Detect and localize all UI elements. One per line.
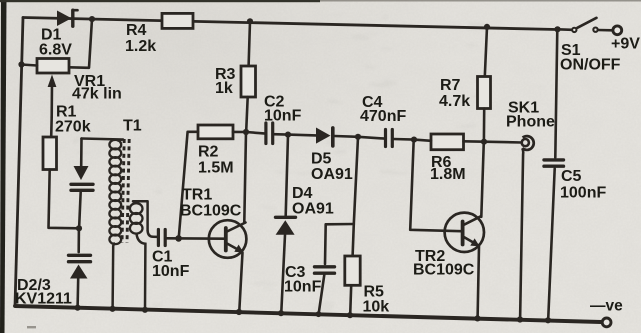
capacitor C3 xyxy=(315,265,335,268)
svg-text:Phone: Phone xyxy=(506,114,555,131)
svg-text:47k lin: 47k lin xyxy=(72,86,122,103)
wire VR1 riser xyxy=(69,19,92,68)
varicap D3 xyxy=(77,229,80,252)
wire C2 right lead xyxy=(273,133,288,136)
wire R6 left lead xyxy=(414,140,431,141)
node T1 secondary ground xyxy=(142,307,148,313)
wire top rail xyxy=(23,18,557,30)
node VR1 left xyxy=(18,61,24,67)
transistor TR1 xyxy=(209,220,247,258)
resistor R3 xyxy=(241,66,256,97)
wiper arrow VR1 xyxy=(50,83,53,117)
svg-text:OA91: OA91 xyxy=(292,201,334,218)
wire T1 primary bottom lead xyxy=(113,244,114,309)
wire TR1 emitter fall xyxy=(239,253,242,312)
wire VR1 wiper to R1 xyxy=(50,117,53,137)
switch S1 contact b xyxy=(593,28,597,32)
wire TR2 emitter fall xyxy=(478,247,479,318)
wire D5 right lead xyxy=(335,135,358,138)
svg-text:TR1: TR1 xyxy=(182,187,212,204)
svg-text:ON/OFF: ON/OFF xyxy=(560,57,621,74)
switch S1 contact a xyxy=(572,28,576,32)
wire C5 fall xyxy=(548,169,555,320)
node top rail R7 xyxy=(484,24,490,30)
svg-text:1.8M: 1.8M xyxy=(430,166,466,183)
resistor R1 xyxy=(43,137,57,170)
wire T1 secondary top hook xyxy=(133,201,148,230)
svg-text:R7: R7 xyxy=(440,77,461,94)
node top rail S1 xyxy=(554,26,560,32)
svg-text:D4: D4 xyxy=(292,185,313,202)
svg-text:4.7k: 4.7k xyxy=(439,93,470,110)
potentiometer VR1 xyxy=(37,59,69,74)
wire R5 drop xyxy=(353,137,358,256)
capacitor C3 top lead xyxy=(324,224,327,264)
svg-text:OA91: OA91 xyxy=(311,166,353,183)
node R7 jack junction xyxy=(481,139,487,145)
diode D5 xyxy=(316,128,331,144)
svg-text:10nF: 10nF xyxy=(264,108,302,125)
node C4 junction xyxy=(355,134,361,140)
capacitor C1 xyxy=(157,230,160,246)
scan edge bar left xyxy=(0,0,7,333)
svg-text:R2: R2 xyxy=(198,144,219,161)
wire R6 right lead xyxy=(464,140,485,143)
wire R3 top lead xyxy=(249,21,250,66)
wire left rail xyxy=(15,18,23,307)
wire R2 right lead xyxy=(233,131,246,134)
wire varicap top xyxy=(80,139,83,167)
capacitor C2 xyxy=(264,123,267,144)
svg-text:100nF: 100nF xyxy=(560,185,606,202)
wire S1 stub xyxy=(558,28,572,31)
wire TR2 base drop xyxy=(410,140,461,231)
wire D4 drop xyxy=(286,135,288,216)
wire TR1 collector riser xyxy=(244,132,246,222)
transistor TR2 xyxy=(445,213,484,252)
resistor R7 xyxy=(478,77,491,109)
node jack ground xyxy=(517,316,523,322)
svg-text:+9V: +9V xyxy=(611,36,640,53)
svg-text:6.8V: 6.8V xyxy=(39,42,72,59)
wire bottom rail xyxy=(15,306,601,322)
svg-text:T1: T1 xyxy=(123,118,142,135)
svg-text:D5: D5 xyxy=(311,151,332,168)
svg-text:BC109C: BC109C xyxy=(180,203,242,220)
transformer T1 core xyxy=(122,139,124,243)
scan edge line top xyxy=(0,0,641,2)
node D1 cathode xyxy=(89,16,95,22)
svg-text:270k: 270k xyxy=(55,119,91,136)
transformer T1 secondary winding xyxy=(130,203,143,214)
node collector junction TR1 xyxy=(243,129,249,135)
svg-text:1.2k: 1.2k xyxy=(125,38,156,55)
wire R7 top lead xyxy=(485,27,487,77)
resistor R2 xyxy=(198,125,233,139)
wire R7 bottom lead xyxy=(483,109,486,142)
node TR1 emitter ground xyxy=(236,309,242,315)
svg-text:C5: C5 xyxy=(561,168,582,185)
wire C3 stub xyxy=(326,223,354,226)
wire C2 left lead xyxy=(246,132,266,134)
diode D4 xyxy=(276,216,296,219)
transformer T1 primary winding xyxy=(109,140,121,149)
wire TR1 base lead xyxy=(167,237,224,240)
socket SK1 xyxy=(522,139,529,146)
node D4 ground xyxy=(278,310,284,316)
node C5 ground xyxy=(545,317,551,323)
svg-text:470nF: 470nF xyxy=(360,108,406,125)
wire T1 secondary bottom lead xyxy=(137,234,146,310)
resistor R5 xyxy=(345,256,360,285)
svg-text:R4: R4 xyxy=(126,22,147,39)
wire R1 bottom lead xyxy=(49,170,80,229)
smudge marks xyxy=(27,326,36,328)
node R5 ground xyxy=(347,312,353,318)
node R2 base junction xyxy=(175,235,182,242)
svg-text:10k: 10k xyxy=(363,299,390,316)
wire battery stub xyxy=(598,29,612,32)
node varicap junction xyxy=(76,225,82,231)
node C3 ground xyxy=(316,311,322,317)
wire R3 bottom lead xyxy=(246,97,248,131)
wire R2 left lead xyxy=(179,132,198,239)
page ghosting xyxy=(330,5,475,165)
svg-text:BC109C: BC109C xyxy=(413,262,475,279)
terminal +9V xyxy=(613,26,622,35)
resistor R6 xyxy=(431,134,464,150)
svg-text:KV1211: KV1211 xyxy=(15,291,72,308)
svg-text:—ve: —ve xyxy=(590,298,623,315)
node R6 junction xyxy=(411,137,417,143)
wire R5 bottom lead xyxy=(350,285,351,314)
wire jack lead xyxy=(484,140,522,143)
diode D1 xyxy=(57,11,72,27)
capacitor C5 xyxy=(544,158,564,161)
svg-text:10nF: 10nF xyxy=(284,279,322,296)
node top rail R3 xyxy=(247,18,253,24)
wire tank top xyxy=(82,139,124,140)
node varicap ground xyxy=(75,305,81,311)
switch S1 lever xyxy=(577,18,596,28)
capacitor C4 xyxy=(384,130,387,147)
wire C4 right lead xyxy=(393,138,414,141)
node TR2 emitter ground xyxy=(474,315,480,321)
wire C4 left lead xyxy=(358,137,385,139)
node D4 junction xyxy=(285,132,291,138)
wire C3 bottom lead xyxy=(319,275,325,314)
wire D5 left lead xyxy=(288,133,316,136)
svg-text:1.5M: 1.5M xyxy=(198,160,234,177)
wire C5 riser xyxy=(555,30,557,158)
terminal -ve xyxy=(602,318,611,327)
wire VR1 left lead xyxy=(22,65,38,66)
wire TR2 collector riser xyxy=(481,142,484,217)
wire jack ground fall xyxy=(520,148,523,318)
varicap D2 xyxy=(74,166,89,180)
node T1 primary ground xyxy=(109,306,115,312)
resistor R4 xyxy=(162,13,193,28)
svg-text:1k: 1k xyxy=(215,80,233,97)
svg-text:10nF: 10nF xyxy=(152,263,190,280)
